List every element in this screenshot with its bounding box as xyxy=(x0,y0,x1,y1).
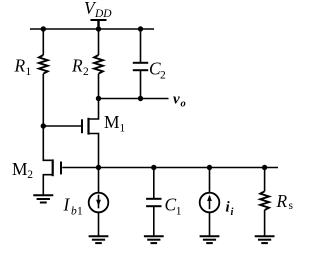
node dot C2-vo xyxy=(138,96,143,101)
svg-text:R: R xyxy=(276,191,288,211)
node dot R2-M1 drain xyxy=(96,96,101,101)
wire M1 drain xyxy=(90,99,99,120)
transistor M2 xyxy=(52,159,54,176)
wire bottom rail xyxy=(62,167,278,169)
svg-text:1: 1 xyxy=(77,206,83,218)
svg-text:i: i xyxy=(231,207,234,218)
wire ii top xyxy=(209,168,211,193)
wire C2 top xyxy=(140,29,142,62)
wire Ib1 bottom xyxy=(98,212,100,236)
svg-text:I: I xyxy=(63,195,71,215)
current source ii xyxy=(200,193,220,213)
wire M2 source xyxy=(43,175,52,195)
node dot Rs-rail xyxy=(262,165,267,170)
wire M2 drain xyxy=(43,126,51,160)
wire R2 bottom xyxy=(98,74,100,99)
svg-text:DD: DD xyxy=(94,8,112,20)
capacitor C2 xyxy=(133,62,148,64)
svg-text:1: 1 xyxy=(26,66,32,78)
svg-text:1: 1 xyxy=(120,123,126,135)
svg-text:2: 2 xyxy=(83,66,89,78)
svg-text:M: M xyxy=(12,159,27,179)
wire Rs top xyxy=(264,168,266,192)
wire C2 bottom xyxy=(140,71,142,99)
svg-text:C: C xyxy=(165,195,177,215)
svg-text:s: s xyxy=(289,200,294,212)
node dot rail-C2 xyxy=(138,26,143,31)
wire VDD stub xyxy=(97,20,99,29)
resistor R1 xyxy=(39,55,48,74)
node dot gate junction A xyxy=(41,123,46,128)
svg-text:R: R xyxy=(14,56,26,76)
ground ii xyxy=(200,235,220,237)
wire top rail xyxy=(30,28,154,30)
svg-text:M: M xyxy=(104,112,119,132)
wire M1 gate xyxy=(43,125,81,127)
wire Rs bottom xyxy=(264,210,266,236)
svg-text:1: 1 xyxy=(176,206,182,218)
VDD supply terminal bar xyxy=(91,19,107,21)
wire M1 source xyxy=(89,134,99,168)
svg-text:o: o xyxy=(181,99,186,110)
wire R1 top xyxy=(42,29,44,55)
ground Rs xyxy=(255,235,275,237)
resistor Rs xyxy=(260,191,269,210)
wire R1 bottom to node A xyxy=(42,74,44,126)
current source Ib1 xyxy=(89,193,109,213)
node dot C1-rail xyxy=(151,165,156,170)
wire C1 bottom xyxy=(153,207,155,236)
wire Ib1 top xyxy=(98,168,100,193)
transistor M1 xyxy=(87,118,89,135)
wire R2 top xyxy=(98,29,100,55)
capacitor C1 xyxy=(146,198,161,200)
svg-text:2: 2 xyxy=(27,169,33,181)
ground C1 xyxy=(144,235,164,237)
ground M2 xyxy=(33,194,53,196)
wire output node to vo xyxy=(99,98,169,100)
node dot rail-VDD xyxy=(96,26,101,31)
node dot M1 source-rail xyxy=(96,165,101,170)
wire C1 top xyxy=(153,168,155,199)
svg-text:2: 2 xyxy=(160,70,166,82)
svg-text:v: v xyxy=(173,92,180,108)
wire ii bottom xyxy=(209,212,211,236)
ground Ib1 xyxy=(89,235,109,237)
node dot rail-R1 xyxy=(41,26,46,31)
resistor R2 xyxy=(94,55,103,74)
svg-text:R: R xyxy=(71,56,83,76)
node dot ii-rail xyxy=(207,165,212,170)
